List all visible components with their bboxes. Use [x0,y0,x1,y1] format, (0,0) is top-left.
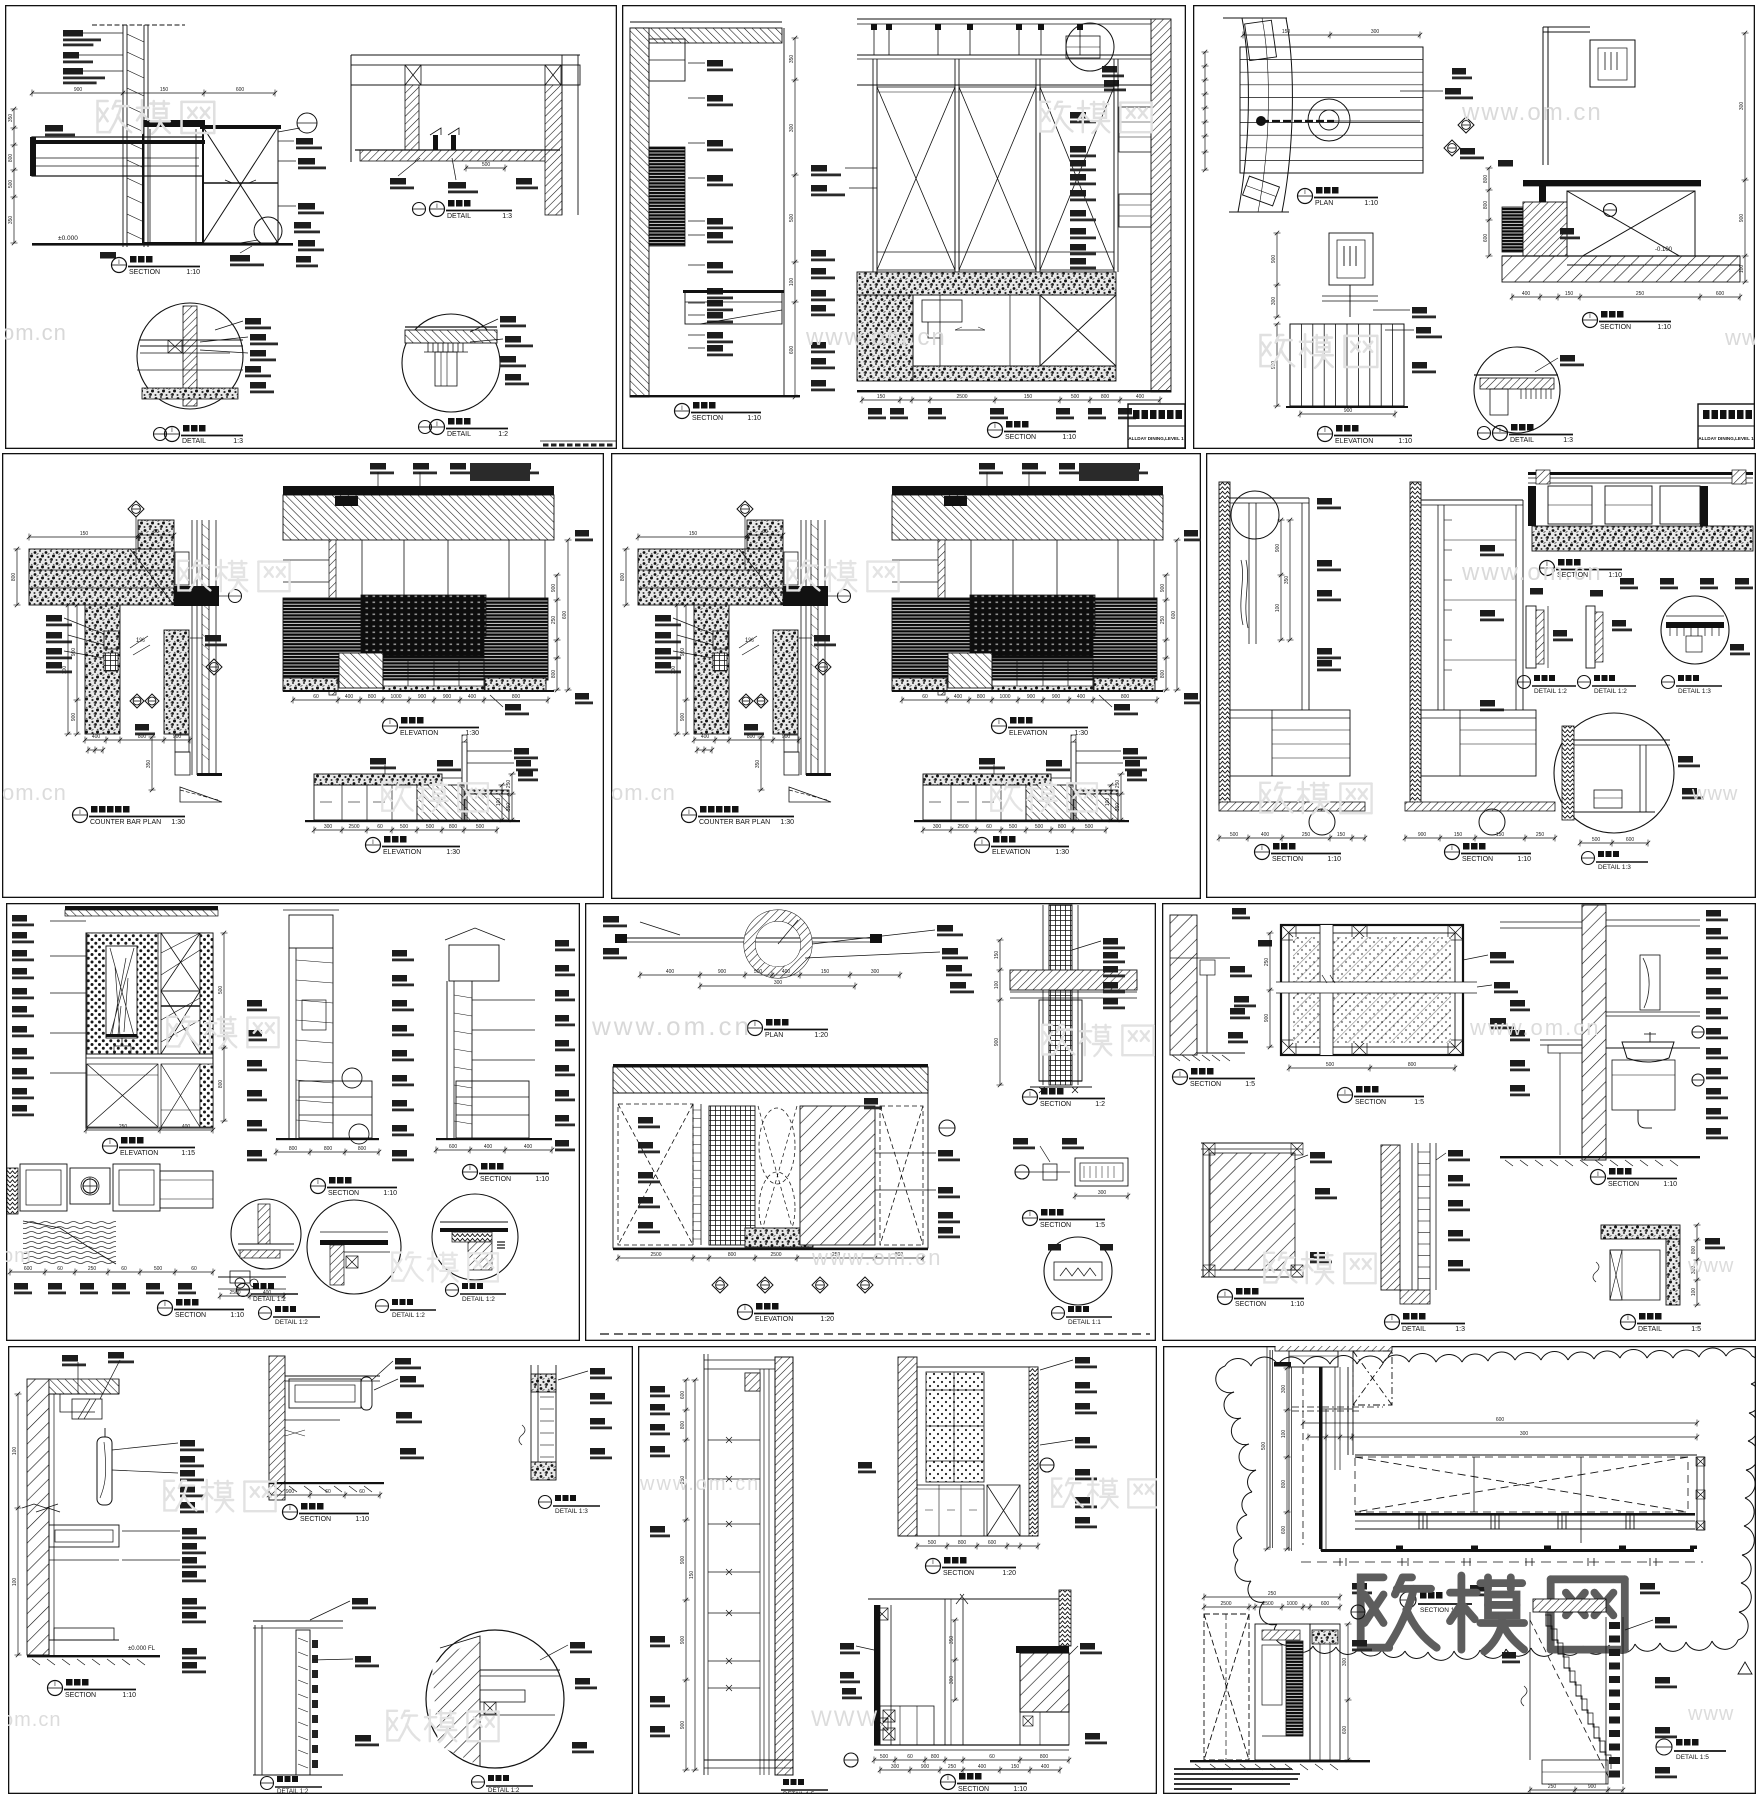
p1 counter top [32,137,203,176]
svg-text:900: 900 [680,1721,686,1730]
svg-text:900: 900 [443,694,452,700]
svg-text:DETAIL: DETAIL [1638,1326,1662,1333]
svg-text:250: 250 [1548,1784,1557,1790]
panel 6 border (row2 right sheet) [1207,454,1756,898]
p11 section I: crosshatch panel [917,1367,1038,1536]
p12 L-plan dashed X bench [1355,1457,1688,1512]
svg-text:om.cn: om.cn [2,1709,61,1731]
svg-text:400: 400 [92,734,101,740]
svg-text:400: 400 [1261,832,1270,838]
svg-text:150: 150 [1024,394,1033,400]
svg-text:1:30: 1:30 [446,849,460,856]
p8 elevation: tick strip [692,1104,694,1245]
p4 plan: right wall [800,520,802,775]
svg-text:DETAIL 1:2: DETAIL 1:2 [462,1296,495,1303]
svg-text:900: 900 [994,1038,1000,1047]
p9 square section II [1201,1142,1303,1144]
svg-text:100: 100 [12,1447,18,1456]
svg-text:900: 900 [1344,408,1353,414]
svg-text:1:5: 1:5 [1095,1222,1105,1229]
svg-text:DETAIL: DETAIL [447,213,471,220]
svg-text:300: 300 [1371,29,1380,35]
p4 plan labels left [46,615,62,622]
p8 elevation: dashed oval panel [759,1108,795,1184]
svg-text:400: 400 [666,969,675,975]
svg-text:500: 500 [880,1754,889,1760]
p12 L-plan vertical arm layers [1269,1350,1271,1548]
svg-text:60: 60 [325,1489,331,1495]
svg-text:SECTION: SECTION [65,1692,96,1699]
p4 elevation A: labels top [370,463,386,470]
svg-text:800: 800 [324,1146,333,1152]
svg-text:900: 900 [718,969,727,975]
svg-text:SECTION: SECTION [480,1176,511,1183]
p4 elevation A: left steps + speckle [339,653,383,688]
svg-text:COUNTER BAR PLAN: COUNTER BAR PLAN [699,819,770,826]
p12 elevation: dims + labels [1204,1606,1340,1608]
p4 watermarks [178,560,289,592]
svg-text:300: 300 [949,1676,955,1685]
p3 detail circle II [1474,347,1560,433]
svg-text:1:10: 1:10 [1327,856,1341,863]
p1 right detail title [413,203,426,216]
svg-text:www.om.cn: www.om.cn [811,1245,942,1270]
svg-text:400: 400 [468,694,477,700]
svg-text:100: 100 [496,798,502,807]
svg-text:150: 150 [1337,832,1346,838]
p3 section title [1583,313,1598,328]
svg-text:300: 300 [1271,297,1277,306]
svg-text:DETAIL 1:2: DETAIL 1:2 [253,1296,286,1303]
svg-text:250: 250 [88,1266,97,1272]
p6 left: floor [1219,802,1365,811]
p1 central pier [143,122,203,243]
p11 section III: right hatched block [1020,1653,1069,1712]
p4 elevation A: grid bands [970,595,1095,636]
p12 L-plan vertical arm cap box [1289,1351,1338,1367]
svg-text:SECTION: SECTION [1190,1081,1221,1088]
p6 small detail IV [1526,606,1536,668]
p2 elevation: label cluster center-right [1070,112,1086,119]
svg-text:900: 900 [74,87,83,93]
p2 floor + dims [857,390,1171,392]
svg-text:800: 800 [512,694,521,700]
svg-text:800: 800 [8,154,14,163]
svg-text:300: 300 [1281,1385,1287,1394]
svg-text:900: 900 [1275,544,1281,553]
svg-text:150: 150 [689,531,698,537]
p4 elevation A: labels top [979,463,995,470]
p9 big plan labels [1490,952,1506,959]
svg-text:100: 100 [671,666,677,675]
p12 big gray watermark [1361,1576,1625,1652]
p4 elevation A: right dims [1165,575,1167,690]
svg-text:1:30: 1:30 [1074,730,1088,737]
p11 section III labels [840,1643,854,1650]
p4 elevation B labels [370,758,386,765]
p8 elevation: right X panel [880,1106,923,1245]
svg-text:150: 150 [1011,1764,1020,1770]
svg-text:500: 500 [1592,837,1601,843]
svg-text:800: 800 [728,1252,737,1258]
p10 labels lower [182,1528,197,1535]
p4 counter bar plan: stipple top arm [29,549,174,605]
p1 labels right of IV [500,316,516,323]
p12 L-plan horizontal arm: top line [1355,1454,1697,1456]
p11 section III: left column [874,1605,880,1745]
p12 L-plan mirror X box (dash-dot) [1353,1351,1392,1405]
svg-text:DETAIL 1:2: DETAIL 1:2 [275,1319,308,1326]
svg-text:400: 400 [263,1290,272,1296]
p7 section I base [276,1138,379,1140]
svg-text:100: 100 [12,1578,18,1587]
p9 right: floor [1500,1156,1700,1158]
svg-text:800: 800 [1040,1754,1049,1760]
panel 12 border (row4 right sheet) [1164,1341,1759,1794]
svg-text:2500: 2500 [1220,1601,1231,1607]
svg-text:100: 100 [789,278,795,287]
p1 wall section: vertical wall [92,24,185,26]
svg-text:800: 800 [449,824,458,830]
svg-text:SECTION: SECTION [692,415,723,422]
svg-text:DETAIL: DETAIL [182,438,206,445]
p3 elevation title [1318,427,1333,442]
svg-text:600: 600 [1483,234,1489,243]
svg-text:1:30: 1:30 [780,819,794,826]
p2 elevation: mullions + X panels [857,84,1160,86]
svg-text:350: 350 [755,760,761,769]
svg-text:1:10: 1:10 [1364,200,1378,207]
p2 title block [1128,404,1185,448]
svg-text:600: 600 [1342,1726,1348,1735]
p11 section III: base + dims [874,1744,1069,1746]
p1 callout circle B [297,113,317,133]
svg-text:900: 900 [782,734,791,740]
svg-text:600: 600 [1281,1526,1287,1535]
svg-text:500: 500 [476,824,485,830]
svg-text:300: 300 [1520,1431,1529,1437]
p12 stair: dashes + box [1530,1620,1610,1780]
svg-text:600: 600 [1716,291,1725,297]
svg-text:www: www [1687,1703,1734,1725]
svg-text:500: 500 [1326,1062,1335,1068]
svg-text:SECTION: SECTION [175,1312,206,1319]
panel 9 border (row3 right sheet) [1163,904,1756,1341]
panel 10 border (row4 left sheet) [2,1347,632,1795]
svg-text:800: 800 [1281,1480,1287,1489]
svg-text:ALLDAY DINING,LEVEL 1: ALLDAY DINING,LEVEL 1 [1698,436,1754,441]
svg-text:DETAIL: DETAIL [1402,1326,1426,1333]
p7 elevation: polka stipple panels [87,933,158,1054]
svg-text:SECTION: SECTION [943,1570,974,1577]
p1 right detail: ceiling corner [351,54,580,56]
svg-text:250: 250 [1636,291,1645,297]
panel 4 border (row2 left sheet) [2,454,603,1000]
p1 floor line [32,243,293,246]
svg-text:1:5: 1:5 [1245,1081,1255,1088]
svg-text:SECTION: SECTION [958,1786,989,1793]
svg-text:900: 900 [921,1764,930,1770]
p12 bottom-left elevation: X box [1204,1614,1249,1760]
p6 left: labels [1317,498,1332,505]
svg-text:250: 250 [551,616,557,625]
p4 plan: black junction block [174,586,219,606]
svg-text:800: 800 [138,734,147,740]
p2 counter: stipple band [857,272,1116,295]
svg-text:800: 800 [931,1754,940,1760]
p6 top-right counter section III [1528,472,1753,475]
p1 title IV [419,421,432,434]
svg-text:SECTION: SECTION [1272,856,1303,863]
svg-text:400: 400 [782,969,791,975]
p2 elevation: left labels [811,165,827,172]
p10 middle section II [269,1356,285,1500]
p4 plan: interior fixtures [713,631,728,649]
svg-text:ELEVATION: ELEVATION [400,730,438,737]
p7 elevation: left labels [12,915,27,922]
svg-text:900: 900 [71,648,77,657]
svg-text:250: 250 [1302,832,1311,838]
p3 section: floor [1502,256,1740,282]
svg-text:150: 150 [689,1571,695,1580]
svg-text:DETAIL: DETAIL [447,431,471,438]
p11 section III: center verticals [944,1599,946,1745]
svg-text:1:10: 1:10 [230,1312,244,1319]
svg-text:SECTION: SECTION [328,1190,359,1197]
svg-text:350: 350 [146,760,152,769]
svg-text:DETAIL 1:2: DETAIL 1:2 [277,1788,309,1795]
svg-text:DETAIL: DETAIL [1510,437,1534,444]
svg-text:300: 300 [933,824,942,830]
svg-text:ALLDAY DINING,LEVEL 1: ALLDAY DINING,LEVEL 1 [1128,436,1184,441]
svg-text:1:10: 1:10 [383,1190,397,1197]
svg-text:800: 800 [1483,175,1489,184]
svg-text:400: 400 [182,1124,191,1130]
p8 section III: lower boxes [1039,1000,1082,1081]
svg-text:900: 900 [1052,694,1061,700]
p12 stair labels [1655,1617,1670,1624]
svg-text:100: 100 [1105,798,1111,807]
svg-text:900: 900 [680,1636,686,1645]
p9 detail IV corner [1601,1225,1680,1239]
svg-text:500: 500 [789,214,795,223]
p1 right detail: floor + lamps [360,150,545,161]
svg-text:PLAN: PLAN [1315,200,1333,207]
p1 labels top-left [63,30,83,37]
p7 elevation: lower benches [87,1064,158,1127]
svg-text:60: 60 [359,1489,365,1495]
p9 right labels [1706,910,1721,917]
svg-text:om: om [2,1245,32,1267]
p12 L-plan dashed dim line [1301,1561,1703,1563]
svg-text:300: 300 [1739,102,1745,111]
p10 pendant lamp [104,1428,106,1437]
p9 right: upper shelves [1500,921,1582,923]
p4 elevation A: hatch band [283,495,554,540]
svg-text:www.om.cn: www.om.cn [1461,99,1603,126]
svg-text:150: 150 [1496,832,1505,838]
p1 watermark [98,100,215,134]
svg-text:SECTION: SECTION [1608,1181,1639,1188]
svg-text:DETAIL 1:2: DETAIL 1:2 [1594,688,1627,695]
p3 title II [1478,427,1491,440]
svg-text:SECTION: SECTION [1040,1101,1071,1108]
svg-text:1:10: 1:10 [1657,324,1671,331]
p7 section I cabinet [299,1081,372,1138]
p4 elevation A: dark louver block [283,598,548,680]
p9 wall corner section [1170,915,1197,1055]
svg-text:150: 150 [877,394,886,400]
p2 elevation title [988,423,1003,438]
svg-text:1:10: 1:10 [355,1516,369,1523]
p4 elevation A: top black bar [892,486,1163,495]
p4 elevation B base + dims [305,820,520,822]
p6 middle section: zigzag wall [1410,482,1421,805]
svg-text:1:3: 1:3 [1455,1326,1465,1333]
svg-text:1:10: 1:10 [1062,434,1076,441]
svg-text:1:10: 1:10 [1517,856,1531,863]
svg-text:2500: 2500 [770,1252,781,1258]
p11 tall wall: base [704,1759,793,1761]
svg-text:60: 60 [989,1754,995,1760]
svg-text:60: 60 [922,694,928,700]
svg-text:600: 600 [1321,1601,1330,1607]
p4 plan: stipple block top-right [138,520,174,549]
svg-text:60: 60 [762,529,768,535]
svg-text:60: 60 [986,824,992,830]
svg-text:1:2: 1:2 [1095,1101,1105,1108]
svg-text:500: 500 [1230,832,1239,838]
svg-text:500: 500 [1071,394,1080,400]
p2 main elevation: ceiling [857,18,1171,20]
svg-text:800: 800 [1160,670,1166,679]
svg-text:om.cn: om.cn [2,320,67,345]
p6 left: counter [1230,710,1350,776]
svg-text:100: 100 [62,666,68,675]
p10 detail circle V [426,1630,564,1768]
svg-text:60: 60 [153,529,159,535]
svg-text:400: 400 [954,694,963,700]
p4 plan callouts [737,501,753,517]
p7 watermarks [167,1016,278,1048]
p3 section: louver + hatch pier [1502,207,1523,252]
svg-text:1:2: 1:2 [498,431,508,438]
svg-text:800: 800 [747,734,756,740]
svg-text:900: 900 [1264,1014,1270,1023]
svg-text:www: www [1687,1255,1734,1277]
svg-text:500: 500 [218,986,224,995]
svg-text:100: 100 [994,981,1000,990]
p4 plan title [682,808,697,823]
svg-text:800: 800 [620,573,626,582]
p4 plan: vertical arms [85,605,120,734]
p4 elevation A: cabinet doors [992,659,1093,690]
p8 elevation: left X panel [618,1104,693,1245]
p1 dim 900/500/600 [32,92,275,94]
svg-text:1:10: 1:10 [747,415,761,422]
panel 5 border (row2 middle sheet, duplicate of panel 4) [611,454,1202,1000]
p10 counter + floor [49,1639,119,1641]
panel 8 border (row3 middle sheet) [586,904,1156,1341]
p3 plan: striped panel [1240,47,1423,173]
svg-text:PLAN: PLAN [765,1032,783,1039]
svg-text:800: 800 [958,1540,967,1546]
p9 right: washbasin [1622,1042,1674,1062]
svg-text:900: 900 [173,734,182,740]
svg-text:800: 800 [1058,824,1067,830]
svg-text:COUNTER BAR PLAN: COUNTER BAR PLAN [90,819,161,826]
svg-text:1000: 1000 [390,694,401,700]
svg-text:900: 900 [418,694,427,700]
svg-text:500: 500 [1085,824,1094,830]
p6 left: top shelf + curtain [1230,497,1309,499]
svg-text:1:15: 1:15 [181,1150,195,1157]
p6 big detail circle VII [1554,713,1674,833]
svg-text:900: 900 [551,584,557,593]
svg-text:600: 600 [1496,1417,1505,1423]
svg-text:500: 500 [1035,824,1044,830]
svg-text:250: 250 [506,780,512,789]
svg-text:1:10: 1:10 [1608,572,1622,579]
p4 elevation A: verticals [329,540,336,695]
svg-text:150: 150 [160,87,169,93]
p7 elevation: mid rails [86,1053,213,1055]
svg-text:1:10: 1:10 [535,1176,549,1183]
p4 plan: black junction block [783,586,828,606]
p1 title III [154,428,167,441]
svg-text:400: 400 [1077,694,1086,700]
p12 elevation: right strip [1310,1624,1340,1760]
p4 plan callouts [128,501,144,517]
svg-text:1:3: 1:3 [502,213,512,220]
svg-text:350: 350 [789,55,795,64]
svg-text:SECTION: SECTION [300,1516,331,1523]
p12 contractor note text [1174,1768,1292,1770]
svg-text:DETAIL 1:5: DETAIL 1:5 [1676,1754,1709,1761]
p11 tall wall: layers [703,1354,705,1775]
svg-text:400: 400 [1136,394,1145,400]
svg-text:600: 600 [680,1391,686,1400]
p8 elevation: diagonal panel [800,1106,875,1245]
p4 elevation A: hatch band [892,495,1163,540]
svg-text:60: 60 [57,1266,63,1272]
p8 elevation: lattice panel [709,1106,755,1245]
svg-text:900: 900 [1588,1784,1597,1790]
p10 niche shelf [49,1525,119,1547]
svg-text:400: 400 [484,1144,493,1150]
svg-text:1:10: 1:10 [1013,1786,1027,1793]
svg-text:60: 60 [313,694,319,700]
p7 elevation: main frame [86,933,213,1128]
svg-text:1:20: 1:20 [820,1316,834,1323]
svg-text:1:10: 1:10 [1398,438,1412,445]
p11 section III bottom [868,1598,1060,1600]
p8 bottom dashed line [600,1333,1150,1335]
p8 plan: leaders + labels [812,930,935,944]
svg-text:500: 500 [928,1540,937,1546]
p3 title block [1698,404,1755,448]
svg-text:800: 800 [680,1421,686,1430]
svg-text:1:10: 1:10 [186,269,200,276]
p4 elevation A: right speckle [1094,678,1155,691]
svg-text:500: 500 [1261,1442,1267,1451]
p8 detail circle VI [1044,1237,1112,1305]
p11 section I: labels right [1075,1357,1090,1364]
svg-text:60: 60 [377,824,383,830]
p12 L-plan dims top [1303,1422,1697,1424]
svg-text:±0.000 FL: ±0.000 FL [128,1646,156,1652]
svg-text:1:10: 1:10 [1663,1181,1677,1188]
